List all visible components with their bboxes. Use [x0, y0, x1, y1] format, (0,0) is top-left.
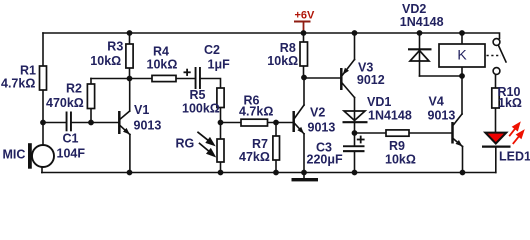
svg-text:47kΩ: 47kΩ	[239, 150, 270, 164]
svg-text:4.7kΩ: 4.7kΩ	[1, 77, 35, 91]
svg-text:R3: R3	[107, 40, 123, 54]
svg-text:10kΩ: 10kΩ	[147, 57, 178, 71]
svg-text:RG: RG	[176, 137, 195, 151]
svg-text:1N4148: 1N4148	[400, 15, 444, 29]
svg-text:R7: R7	[252, 137, 268, 151]
svg-text:10kΩ: 10kΩ	[90, 54, 121, 68]
svg-text:10kΩ: 10kΩ	[385, 152, 416, 166]
svg-text:R8: R8	[280, 41, 296, 55]
svg-text:9013: 9013	[308, 120, 336, 134]
svg-text:R1: R1	[20, 64, 36, 78]
svg-text:10kΩ: 10kΩ	[267, 54, 298, 68]
svg-text:+6V: +6V	[295, 10, 316, 22]
svg-text:1μF: 1μF	[208, 57, 231, 71]
svg-text:104F: 104F	[57, 147, 86, 161]
svg-text:R5: R5	[190, 88, 206, 102]
svg-text:1N4148: 1N4148	[368, 108, 412, 122]
svg-text:220μF: 220μF	[307, 153, 344, 167]
svg-text:C2: C2	[204, 43, 220, 57]
svg-text:V2: V2	[310, 106, 325, 120]
svg-text:R9: R9	[389, 139, 405, 153]
svg-text:C1: C1	[63, 132, 79, 146]
svg-text:9013: 9013	[428, 109, 456, 123]
svg-text:MIC: MIC	[3, 148, 26, 162]
svg-text:100kΩ: 100kΩ	[182, 101, 220, 115]
svg-text:V1: V1	[134, 103, 149, 117]
svg-text:1kΩ: 1kΩ	[498, 96, 522, 110]
svg-text:9012: 9012	[357, 73, 385, 87]
svg-text:4.7kΩ: 4.7kΩ	[239, 105, 273, 119]
svg-text:K: K	[457, 46, 467, 62]
svg-text:470kΩ: 470kΩ	[46, 96, 84, 110]
svg-text:LED1: LED1	[499, 150, 530, 164]
svg-text:VD1: VD1	[367, 95, 391, 109]
svg-text:R2: R2	[66, 82, 82, 96]
svg-text:V4: V4	[429, 94, 444, 108]
svg-text:9013: 9013	[134, 118, 162, 132]
